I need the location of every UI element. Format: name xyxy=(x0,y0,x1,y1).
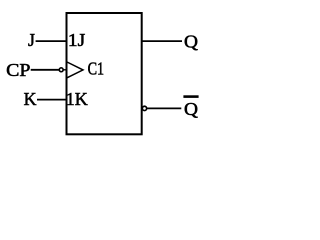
wire K input xyxy=(37,99,66,101)
wire Qbar output xyxy=(147,107,181,109)
wire Q output xyxy=(143,40,183,42)
overline of Qbar xyxy=(183,95,198,98)
wire J input xyxy=(36,40,66,42)
svg-text:K: K xyxy=(24,89,37,109)
svg-text:J: J xyxy=(28,30,35,50)
svg-text:C1: C1 xyxy=(88,58,105,78)
svg-text:Q: Q xyxy=(184,32,198,52)
wire CP input xyxy=(31,69,59,71)
negation bubble Qbar xyxy=(142,106,146,110)
polarity bubble CP xyxy=(59,68,63,72)
svg-text:CP: CP xyxy=(6,60,30,80)
dynamic input triangle xyxy=(67,62,83,78)
svg-text:1K: 1K xyxy=(66,89,88,109)
svg-text:Q: Q xyxy=(184,99,198,119)
wire bubble to body xyxy=(64,69,67,71)
svg-text:1J: 1J xyxy=(68,30,85,50)
flip-flop body U1 xyxy=(67,13,142,134)
